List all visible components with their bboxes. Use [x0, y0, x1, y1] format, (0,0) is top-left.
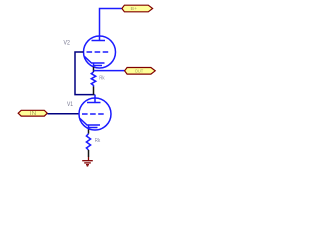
triode V1 [79, 95, 111, 130]
wire black connector Rk to ground [88, 150, 90, 157]
ground [82, 157, 93, 166]
wire black connector Rk to node [93, 87, 95, 95]
flag IN [18, 110, 47, 117]
svg-text:V1: V1 [67, 101, 73, 108]
wire OUT [94, 70, 125, 72]
svg-text:B+: B+ [131, 6, 138, 12]
svg-text:IN: IN [30, 111, 37, 117]
resistor Rk (V1 cathode) [86, 134, 90, 150]
wire IN to V1 grid [48, 113, 80, 115]
svg-text:Rk: Rk [99, 75, 105, 81]
flag OUT [125, 68, 156, 75]
resistor Rk (V2 cathode) [91, 72, 95, 87]
svg-text:V2: V2 [64, 39, 71, 46]
flag B+ [122, 5, 153, 12]
svg-text:Rk: Rk [95, 138, 101, 144]
wire grid box (V2 grid to V1 plate node) [75, 52, 95, 95]
wire black connector cathode to Rk [93, 67, 95, 72]
wire black connector V1 cathode to Rk [88, 130, 90, 134]
svg-text:OUT: OUT [135, 69, 144, 75]
wire B+ plate wire [100, 9, 122, 37]
triode V2 [84, 36, 116, 68]
